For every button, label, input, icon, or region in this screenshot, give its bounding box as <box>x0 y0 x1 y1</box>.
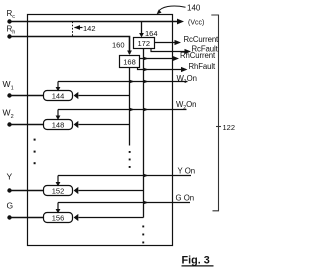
svg-text:G: G <box>7 200 14 210</box>
ellipsis left (more inputs) <box>34 139 36 165</box>
wire 152 to bus v3 <box>79 190 144 192</box>
dashed span 142 <box>72 22 74 37</box>
wire YOn control <box>58 175 191 177</box>
svg-text:156: 156 <box>52 213 65 222</box>
svg-text:142: 142 <box>83 24 96 33</box>
wire W2On control <box>58 109 187 111</box>
svg-text:160: 160 <box>112 40 125 49</box>
wire RhFault <box>138 68 183 70</box>
block 140 (main controller box) <box>28 15 173 246</box>
svg-text:h: h <box>12 30 15 36</box>
block 168 (Rh current sensor) <box>120 56 140 68</box>
svg-text:168: 168 <box>123 58 136 67</box>
svg-text:c: c <box>12 14 15 20</box>
svg-text:122: 122 <box>223 123 236 132</box>
bracket 122 <box>211 15 221 211</box>
wire 148 to bus v1 <box>79 124 130 126</box>
wire GOn control <box>58 202 190 204</box>
switch 148 <box>44 120 73 130</box>
svg-text:164: 164 <box>145 29 158 38</box>
wire W1On control <box>58 81 188 83</box>
svg-text:Y On: Y On <box>178 167 196 176</box>
terminal Rc <box>7 9 16 24</box>
ellipsis under bus v3 <box>142 226 144 244</box>
wire 156 to bus v3 <box>79 217 144 219</box>
wire W1 input <box>10 95 44 97</box>
svg-text:W: W <box>3 108 11 118</box>
svg-text:1: 1 <box>11 85 14 91</box>
svg-text:RhCurrent: RhCurrent <box>180 51 216 60</box>
svg-text:RcCurrent: RcCurrent <box>184 35 220 44</box>
svg-text:144: 144 <box>52 91 65 100</box>
wire 144 to bus v1 <box>79 95 130 97</box>
label 140 <box>157 4 201 15</box>
svg-text:(Vcc): (Vcc) <box>188 19 204 26</box>
tap 164 from Rc line into 172 <box>141 22 143 37</box>
terminal W1 <box>3 79 14 98</box>
svg-text:148: 148 <box>52 120 65 129</box>
arrow + label 142 <box>75 27 83 29</box>
terminal G <box>7 200 14 219</box>
switch 152 <box>44 186 73 196</box>
svg-text:152: 152 <box>52 186 65 195</box>
block 172 (Rc current sensor) <box>134 38 155 49</box>
wire W2 input <box>10 124 44 126</box>
svg-text:On: On <box>187 74 197 83</box>
bus v3 (from 172) <box>143 49 145 218</box>
svg-text:140: 140 <box>187 4 201 13</box>
terminal W2 <box>3 108 14 127</box>
svg-text:2: 2 <box>11 114 14 120</box>
terminal Rh <box>7 25 16 39</box>
wire RcCurrent <box>155 42 176 44</box>
wire Y input <box>10 190 44 192</box>
svg-text:W: W <box>3 79 11 89</box>
ellipsis under bus v1 <box>129 151 131 168</box>
svg-text:Y: Y <box>7 171 13 181</box>
wire Rc to Vcc <box>10 21 179 23</box>
switch 144 <box>44 91 73 101</box>
svg-text:G On: G On <box>176 193 195 202</box>
wire RhCurrent <box>140 58 174 60</box>
wire RcFault <box>151 49 186 52</box>
svg-text:Fig. 3: Fig. 3 <box>182 255 210 267</box>
wire G input <box>10 217 44 219</box>
terminal Y <box>7 171 13 192</box>
svg-text:172: 172 <box>137 39 150 48</box>
bus v1 (from 168) <box>129 68 131 146</box>
wire Rh into node 160 <box>10 37 130 55</box>
svg-text:RhFault: RhFault <box>189 62 217 71</box>
svg-text:On: On <box>186 100 196 109</box>
switch 156 <box>44 213 73 223</box>
